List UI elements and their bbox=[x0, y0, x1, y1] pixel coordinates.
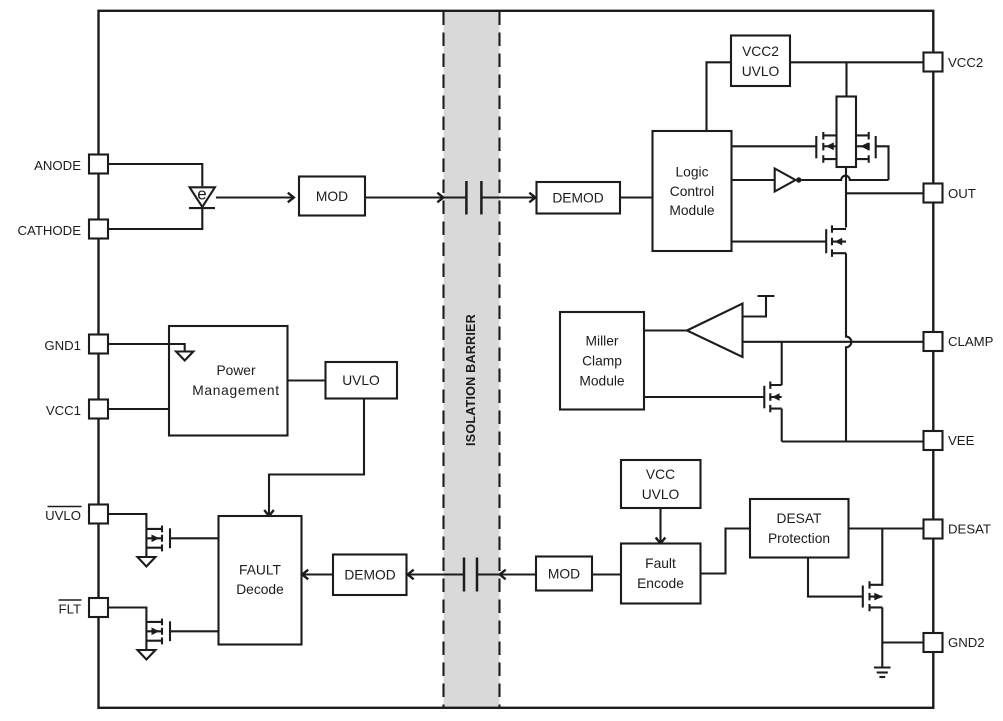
svg-text:VCC: VCC bbox=[646, 467, 675, 482]
pin CATHODE bbox=[18, 220, 109, 239]
transistor Q1 (pull-up left) bbox=[816, 132, 836, 163]
svg-text:VCC2: VCC2 bbox=[742, 44, 779, 59]
isolation barrier right dashed line bbox=[498, 12, 500, 708]
svg-text:Decode: Decode bbox=[236, 582, 284, 597]
wire Fault Encode to MOD2 bbox=[592, 573, 621, 575]
isolation barrier left dashed line bbox=[442, 12, 444, 708]
ground arrow below Q7 bbox=[138, 650, 156, 660]
transistor Q2 (pull-up right) bbox=[856, 132, 876, 163]
wire Q7 gate to FAULT decode bbox=[170, 630, 219, 632]
block FAULT Decode bbox=[219, 516, 302, 645]
pin OUT bbox=[924, 184, 976, 203]
svg-text:OUT: OUT bbox=[948, 186, 976, 201]
wire CATHODE to input LED bbox=[108, 209, 202, 229]
svg-text:Protection: Protection bbox=[768, 531, 830, 546]
arrow barrier cap into DEMOD2 bbox=[408, 570, 465, 580]
pin GND1 bbox=[44, 335, 108, 354]
svg-text:VCC2: VCC2 bbox=[948, 55, 983, 70]
block Fault Encode bbox=[621, 544, 701, 604]
wire DESAT node down to Q5 drain bbox=[870, 529, 883, 585]
wire Q2 gate to inverter output bbox=[876, 146, 889, 180]
svg-text:UVLO: UVLO bbox=[342, 373, 380, 388]
svg-text:Clamp: Clamp bbox=[582, 353, 622, 368]
transistor Q4 (Miller clamp) bbox=[764, 382, 781, 413]
wire DEMOD to Logic Control Module bbox=[620, 196, 653, 198]
block Logic Control Module bbox=[653, 131, 732, 251]
wire VCC2 node down to driver pair bbox=[845, 62, 847, 96]
svg-text:DESAT: DESAT bbox=[948, 522, 991, 537]
svg-text:UVLO: UVLO bbox=[45, 508, 81, 523]
svg-text:UVLO: UVLO bbox=[742, 64, 780, 79]
ground arrow inside power management bbox=[176, 352, 193, 361]
wire UVLO to FAULT decode with arrow bbox=[264, 399, 364, 517]
svg-text:FAULT: FAULT bbox=[239, 563, 281, 578]
svg-text:VCC1: VCC1 bbox=[46, 403, 81, 418]
wire LCM to inverter bbox=[732, 179, 775, 181]
wire VCC2 UVLO to VCC2 pin bbox=[790, 61, 924, 63]
pin ANODE bbox=[34, 155, 108, 174]
svg-text:e: e bbox=[197, 185, 206, 204]
wire power management to UVLO bbox=[288, 379, 326, 381]
comparator U2 bbox=[687, 304, 743, 358]
svg-text:Encode: Encode bbox=[637, 576, 684, 591]
ground symbol GND2 bbox=[874, 643, 891, 678]
pin VEE bbox=[924, 431, 975, 450]
pin FLT (active low) bbox=[59, 598, 109, 617]
svg-text:MOD: MOD bbox=[316, 189, 348, 204]
pin VCC1 bbox=[46, 400, 108, 419]
transistor Q3 (pull-down) bbox=[826, 225, 846, 257]
wire comparator output to CLAMP pin with hop bbox=[743, 341, 924, 343]
arrow MOD2 into barrier bbox=[500, 570, 506, 580]
transistor Q7 (FLT open drain) bbox=[146, 619, 170, 645]
svg-text:Module: Module bbox=[669, 203, 715, 218]
svg-text:Fault: Fault bbox=[645, 556, 676, 571]
wire Q3 source down to VEE bbox=[846, 253, 851, 441]
wire inverter output with hop over drive net bbox=[802, 176, 889, 180]
svg-text:Miller: Miller bbox=[586, 333, 619, 348]
svg-text:MOD: MOD bbox=[548, 567, 580, 582]
svg-text:DEMOD: DEMOD bbox=[344, 567, 395, 582]
wire LCM to Q3 gate bbox=[732, 241, 827, 243]
demodulator DEMOD (fault channel) bbox=[333, 555, 407, 596]
wire GND1 into power management bbox=[108, 344, 185, 352]
svg-text:FLT: FLT bbox=[59, 602, 81, 617]
block VCC UVLO (secondary) bbox=[621, 460, 701, 508]
svg-text:Power: Power bbox=[216, 363, 256, 378]
ground arrow below Q6 bbox=[138, 557, 156, 567]
svg-text:DEMOD: DEMOD bbox=[552, 190, 603, 205]
transistor Q5 (DESAT discharge) bbox=[863, 581, 883, 611]
svg-text:Control: Control bbox=[670, 184, 714, 199]
wire VCC2 UVLO to Logic Control Module bbox=[707, 62, 732, 131]
capacitor C2 (bottom isolation cap) bbox=[464, 558, 536, 592]
arrow into DEMOD bbox=[529, 193, 535, 203]
svg-text:CATHODE: CATHODE bbox=[18, 223, 82, 238]
block DESAT Protection bbox=[750, 499, 849, 558]
wire MOD to barrier cap with arrow bbox=[365, 193, 466, 203]
wire Miller Clamp Module to Q4 gate bbox=[644, 396, 764, 398]
driver output stage pair body bbox=[837, 97, 857, 168]
pin VCC2 bbox=[924, 53, 984, 72]
wire FLT pin to open-drain FET Q7 bbox=[108, 608, 146, 651]
svg-text:CLAMP: CLAMP bbox=[948, 334, 994, 349]
block Miller Clamp Module bbox=[560, 312, 644, 410]
wire Q6 gate to FAULT decode bbox=[170, 537, 219, 539]
svg-text:ANODE: ANODE bbox=[34, 158, 81, 173]
modulator MOD (fault channel) bbox=[536, 557, 592, 591]
transistor Q6 (UVLO open drain) bbox=[146, 526, 170, 552]
wire DESAT Protection to DESAT pin bbox=[849, 527, 924, 529]
input LED D1 bbox=[189, 185, 215, 209]
inverter U1 bbox=[775, 169, 802, 192]
arrow VCC UVLO into Fault Encode bbox=[656, 508, 666, 544]
svg-text:ISOLATION BARRIER: ISOLATION BARRIER bbox=[464, 314, 478, 446]
svg-text:DESAT: DESAT bbox=[777, 511, 823, 526]
pin GND2 bbox=[924, 633, 985, 652]
wire Q4 drain to clamp net bbox=[781, 342, 783, 386]
capacitor C1 (top isolation cap) bbox=[466, 181, 536, 215]
power management block bbox=[169, 326, 288, 436]
wire Q5 source to GND2 bbox=[882, 607, 923, 642]
svg-text:VEE: VEE bbox=[948, 433, 975, 448]
isolation barrier band bbox=[444, 12, 500, 708]
wire Fault Encode to DESAT Protection bbox=[701, 529, 751, 574]
wire DESAT Protection to Q5 gate bbox=[808, 558, 863, 597]
demodulator DEMOD (channel A) bbox=[537, 182, 621, 214]
wire Q4 source to VEE rail bbox=[781, 409, 783, 442]
isolation barrier label bbox=[464, 314, 478, 446]
wire LCM to Q1 gate bbox=[732, 145, 817, 147]
wire Miller Clamp Module to comparator bbox=[644, 329, 687, 331]
wire VCC1 to power management bbox=[108, 408, 169, 410]
modulator MOD (channel A) bbox=[299, 177, 365, 216]
svg-text:GND1: GND1 bbox=[44, 338, 81, 353]
pin UVLO (active low) bbox=[45, 505, 108, 524]
svg-text:GND2: GND2 bbox=[948, 635, 985, 650]
wire driver pair to OUT net bbox=[845, 167, 847, 228]
wire VEE rail to VEE pin bbox=[782, 440, 924, 442]
wire UVLO pin to open-drain FET Q6 bbox=[108, 514, 146, 557]
block VCC2 UVLO bbox=[731, 36, 790, 87]
comparator reference input bbox=[743, 296, 775, 317]
svg-text:UVLO: UVLO bbox=[642, 487, 680, 502]
wire OUT net to OUT pin bbox=[846, 192, 924, 194]
svg-text:Logic: Logic bbox=[676, 165, 709, 180]
pin DESAT bbox=[924, 520, 992, 539]
svg-text:Management: Management bbox=[192, 383, 280, 398]
pin CLAMP bbox=[924, 332, 994, 351]
wire LED to MOD with arrow bbox=[216, 193, 294, 203]
wire ANODE to input LED bbox=[108, 164, 202, 186]
svg-text:Module: Module bbox=[579, 373, 625, 388]
block UVLO (primary) bbox=[326, 362, 398, 399]
arrow DEMOD2 into FAULT decode bbox=[302, 570, 333, 580]
